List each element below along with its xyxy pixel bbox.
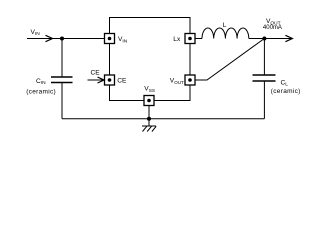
wire VIN input [27,38,105,40]
VIN input arrowhead [46,35,53,41]
wire VOUT output arrow [264,38,292,40]
CE input arrowhead [98,77,105,83]
svg-text:CE: CE [91,70,101,77]
pin VSS [144,96,154,106]
node VOUT junction [262,37,266,41]
wire VOUT node to CL [263,39,265,76]
wire inductor to VOUT node [249,38,265,40]
wire VIN node to CIN [61,39,63,78]
ground [142,119,156,132]
VOUT output arrowhead [285,35,292,41]
wire Lx to inductor [195,38,202,40]
pin VOUT [185,75,195,85]
wire CIN to ground rail [61,83,63,119]
capacitor CL [253,75,276,81]
node ground junction [147,117,151,121]
wire CL to ground rail [263,81,265,119]
pin Lx [185,34,195,44]
wire VOUT pin feedback [195,39,264,81]
svg-text:CE: CE [117,78,127,85]
IC U1 body [110,18,191,101]
node VIN junction [60,37,64,41]
svg-text:Lx: Lx [173,36,181,43]
svg-text:(ceramic): (ceramic) [271,88,301,95]
svg-text:L: L [223,22,227,29]
ground rail wire [62,118,264,120]
pin CE [105,75,115,85]
svg-text:400mA: 400mA [263,25,282,31]
wire VSS to ground rail [148,106,150,119]
wire CE input [88,79,105,81]
svg-text:(ceramic): (ceramic) [26,88,56,95]
pin VIN [105,34,115,44]
capacitor CIN [51,77,73,83]
inductor L [202,28,249,39]
